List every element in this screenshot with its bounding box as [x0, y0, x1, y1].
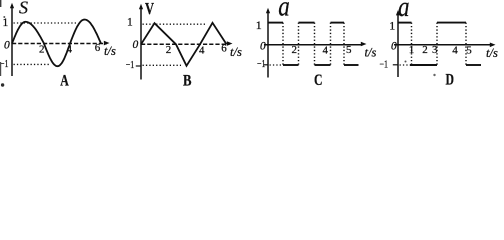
panel C square wave low segment t>5: [344, 64, 359, 66]
scan speck top-left edge: [0, 0, 1, 7]
panel C tick at a=-1 on axis: [264, 64, 269, 66]
svg-text:0: 0: [133, 39, 139, 51]
svg-text:−1: −1: [126, 60, 135, 71]
panel C t-axis with arrow: [264, 42, 367, 47]
svg-text:6: 6: [95, 42, 101, 54]
panel B dotted level line V=-1: [143, 64, 182, 66]
svg-text:2: 2: [292, 44, 298, 56]
svg-text:D: D: [446, 72, 455, 89]
svg-text:0: 0: [4, 40, 10, 52]
panel D t-axis with arrow: [394, 43, 496, 48]
svg-text:V: V: [145, 0, 155, 18]
panel C square wave low segment t=1..2: [283, 64, 299, 66]
svg-text:1: 1: [127, 17, 133, 29]
panel A y-axis (S axis) with arrow: [10, 3, 14, 76]
svg-text:4: 4: [199, 44, 205, 56]
panel B triangle wave V(t): [141, 23, 227, 66]
svg-text:a: a: [398, 0, 410, 23]
panel C dotted vertical at t=4: [330, 23, 332, 67]
scan speck left edge mid: [0, 62, 1, 76]
svg-text:2: 2: [166, 44, 172, 56]
svg-text:1: 1: [409, 44, 415, 56]
svg-text:C: C: [314, 72, 323, 89]
svg-text:5: 5: [346, 44, 352, 56]
panel D dotted vertical at t=5: [465, 23, 467, 67]
panel C square wave high segment t=0..1: [268, 22, 283, 24]
svg-text:t/s: t/s: [230, 45, 242, 59]
panel D dotted vertical at t=3: [436, 23, 438, 67]
svg-text:2: 2: [422, 44, 428, 56]
svg-text:−1: −1: [0, 59, 9, 70]
panel C dotted vertical at t=1: [282, 23, 284, 67]
panel D tick at a=-1 on axis: [393, 64, 399, 66]
panel D y-axis (a axis) with arrow: [396, 10, 400, 77]
panel B tick at V=-1 on axis: [136, 65, 141, 67]
svg-text:t/s: t/s: [486, 46, 498, 60]
panel C square wave low segment t=3..4: [315, 64, 331, 66]
svg-text:4: 4: [323, 45, 329, 57]
scan speck left of A axis: [3, 16, 5, 18]
svg-text:S: S: [19, 0, 28, 18]
panel D square wave high segment t=3..5: [437, 22, 466, 24]
svg-text:2: 2: [39, 43, 45, 55]
panel D square wave low segment t=1..3: [410, 64, 437, 66]
panel D dotted vertical at t=1: [411, 23, 413, 67]
scan speck bottom-left: [1, 83, 4, 86]
panel A dotted level line S=-1: [14, 63, 51, 65]
svg-text:1: 1: [3, 17, 9, 29]
panel C dotted lead-in at a=-1: [270, 64, 283, 66]
svg-text:B: B: [183, 73, 192, 90]
panel D square wave low segment t>5: [466, 64, 481, 66]
svg-text:t/s: t/s: [365, 46, 377, 60]
panel B y-axis (V axis) with arrow: [139, 4, 143, 80]
panel C dotted vertical at t=2: [298, 23, 300, 67]
svg-text:4: 4: [67, 43, 73, 55]
panel C dotted vertical at t=3: [314, 23, 316, 67]
panel A dotted level line S=+1: [14, 22, 77, 24]
svg-text:−1: −1: [380, 60, 389, 71]
svg-text:A: A: [60, 73, 69, 90]
svg-text:1: 1: [256, 18, 262, 32]
scan speck near D caption: [433, 74, 435, 76]
panel B t-axis (dashed) with arrow: [141, 41, 233, 46]
panel D square wave high segment t=0..1: [398, 22, 412, 24]
panel C square wave high segment t=4..5: [331, 22, 345, 24]
panel B dotted level line V=+1: [143, 23, 206, 25]
svg-text:1: 1: [389, 18, 395, 32]
panel A t-axis (dashed) with arrow: [12, 41, 110, 46]
panel C square wave high segment t=2..3: [299, 22, 315, 24]
svg-text:t/s: t/s: [104, 44, 116, 58]
svg-text:0: 0: [260, 41, 266, 53]
panel D dotted lead-in at a=-1: [400, 64, 411, 66]
panel A sine curve S(t): [12, 20, 101, 67]
scan speck above D low segment: [405, 61, 407, 63]
svg-text:5: 5: [466, 44, 472, 56]
panel C y-axis (a axis) with arrow: [266, 8, 270, 78]
svg-text:a: a: [278, 0, 290, 23]
svg-text:3: 3: [432, 44, 438, 56]
svg-text:4: 4: [452, 44, 458, 56]
panel C dotted vertical at t=5: [343, 23, 345, 67]
svg-text:0: 0: [391, 41, 397, 53]
svg-text:6: 6: [221, 42, 227, 54]
